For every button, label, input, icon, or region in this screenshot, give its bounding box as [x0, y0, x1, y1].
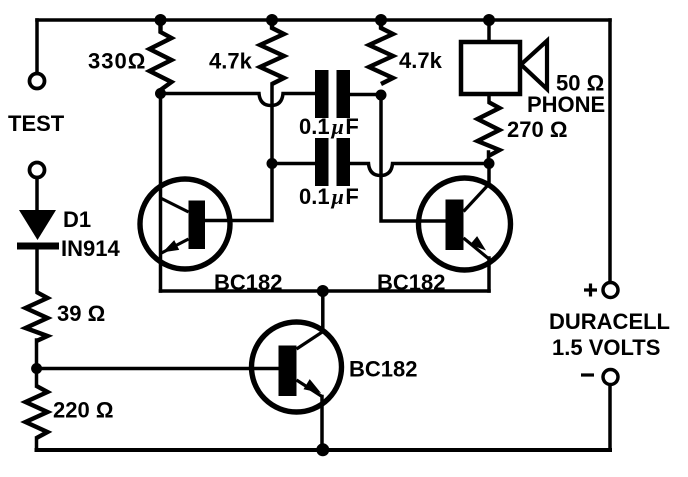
transistor Q3 collector stroke [297, 332, 324, 350]
wire TEST lower terminal to diode D1 [35, 178, 39, 210]
svg-text:DURACELL: DURACELL [549, 309, 670, 334]
wire cap C2 right to Q2 collector node (with hop) [350, 164, 489, 176]
svg-text:4.7k: 4.7k [209, 49, 253, 74]
transistor Q2 emitter stroke [464, 238, 490, 259]
battery plus sign [584, 284, 597, 297]
capacitor C2 left plate [315, 138, 329, 186]
wire node E to Q3 base [37, 367, 279, 371]
svg-text:BC182: BC182 [377, 270, 445, 295]
svg-text:4.7k: 4.7k [399, 48, 443, 73]
wire D1 cathode to 39R [35, 250, 39, 293]
resistor 4.7k #2 [369, 20, 393, 84]
transistor Q2 collector stroke [464, 184, 490, 212]
speaker horn triangle [521, 41, 547, 89]
svg-text:BC182: BC182 [349, 357, 417, 382]
resistor 270 ohm [478, 102, 500, 156]
resistor 330 ohm [150, 20, 172, 93]
svg-text:220 Ω: 220 Ω [53, 398, 113, 423]
wire Q3 collector vertical [321, 292, 325, 332]
wire top supply rail [37, 18, 610, 22]
wire bottom ground rail [37, 448, 611, 452]
wire 39R to 220R through node E [35, 340, 39, 386]
svg-text:1.5 VOLTS: 1.5 VOLTS [552, 335, 660, 360]
transistor Q1 base bar [189, 201, 206, 250]
junction node B1: 4.7k#1 bottom / C2 left / Q1 base [267, 158, 278, 169]
transistor Q3 base bar [279, 346, 297, 397]
transistor Q2 emitter arrowhead [470, 236, 486, 250]
resistor 220 ohm [26, 386, 48, 438]
wire 270R bottom to node C2 [487, 152, 491, 164]
transistor Q3 emitter arrowhead [304, 379, 322, 393]
battery minus sign [581, 373, 594, 376]
resistor 39 ohm [26, 292, 48, 341]
wire battery minus down to ground rail [608, 385, 612, 451]
junction node top of 4.7k#2 [375, 14, 387, 26]
junction node B2: C1 right / 4.7k#2 bottom [376, 90, 387, 101]
junction node top of 4.7k#1 [266, 14, 278, 26]
junction node top of speaker [483, 14, 495, 26]
transistor Q1 emitter arrowhead [163, 240, 180, 252]
capacitor C2 right plate [337, 138, 351, 186]
svg-text:PHONE: PHONE [527, 92, 605, 117]
wire right drop to battery + [608, 20, 612, 283]
capacitor C1 right plate [337, 70, 351, 118]
wire 220R bottom to ground rail [35, 438, 39, 450]
junction node E: 39R / 220R / Q3 base [31, 363, 42, 374]
svg-text:IN914: IN914 [61, 236, 120, 261]
wire emitter rail Q1-Q2 [161, 289, 490, 293]
resistor 4.7k #1 [260, 20, 284, 84]
transistor Q2 circle [419, 178, 511, 270]
wire node B1 down to Q1 base [205, 164, 272, 221]
wire left drop to TEST terminal [35, 20, 39, 74]
diode D1 cathode bar [17, 243, 59, 250]
svg-text:0.1μF: 0.1μF [299, 114, 359, 139]
junction node C2: 270R bottom / C2 right / Q2 collector [484, 158, 495, 169]
wire cap C1 right to 4.7k#2 bottom node [350, 93, 381, 97]
transistor Q1 collector stroke [161, 198, 189, 212]
speaker earphone body [461, 42, 520, 94]
transistor Q3 emitter stroke [297, 380, 323, 397]
transistor Q1 circle [140, 179, 230, 269]
wire Q1 collector/emitter vertical [159, 94, 163, 292]
svg-text:BC182: BC182 [214, 270, 282, 295]
wire Q2 emitter vertical [487, 258, 491, 291]
terminal battery minus [603, 370, 618, 385]
svg-text:TEST: TEST [8, 111, 65, 136]
wire node B1 to cap C2 left plate [272, 162, 315, 166]
wire 4.7k#1 bottom vertical to node B1 [270, 84, 274, 163]
terminal battery plus [603, 283, 618, 298]
svg-text:270 Ω: 270 Ω [507, 117, 567, 142]
wire 4.7k#2 bottom down to Q2 base [381, 95, 446, 221]
transistor Q2 base bar [446, 200, 464, 251]
wire speaker bottom to 270R [487, 94, 491, 102]
svg-text:39 Ω: 39 Ω [57, 301, 105, 326]
wire Q3 emitter vertical [320, 397, 324, 451]
wire 330R bottom node to cap C1 left (with hop) [161, 94, 316, 106]
transistor Q3 circle [252, 322, 342, 412]
svg-text:330Ω: 330Ω [88, 49, 146, 74]
svg-text:0.1μF: 0.1μF [299, 184, 359, 209]
junction node A: 330R bottom / Q1 collector [155, 88, 166, 99]
junction node top of 330R [155, 14, 167, 26]
svg-text:D1: D1 [63, 207, 91, 232]
terminal TEST upper [30, 74, 45, 89]
junction node Q3 collector on emitter rail [317, 285, 329, 297]
capacitor C1 left plate [315, 70, 329, 118]
terminal TEST lower [30, 163, 45, 178]
diode D1 anode triangle [19, 210, 56, 240]
wire Q2 collector from node C2 [487, 164, 491, 185]
transistor Q1 emitter stroke [161, 239, 189, 254]
wire speaker top [487, 20, 491, 42]
junction node Q3 emitter on ground rail [316, 443, 329, 456]
